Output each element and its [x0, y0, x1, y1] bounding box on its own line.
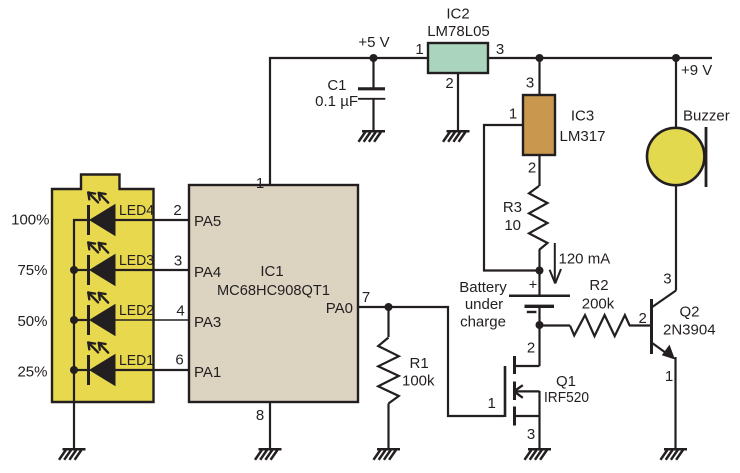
svg-text:PA5: PA5: [194, 213, 221, 230]
svg-text:PA3: PA3: [194, 314, 221, 331]
svg-text:LED1: LED1: [119, 352, 154, 369]
wire R1 bottom to ground: [387, 404, 389, 449]
wire bus stub LED3: [74, 269, 87, 271]
wire LED1 anode to PA1: [116, 369, 190, 371]
wire +9V rail (IC2 pin3 to right edge): [488, 57, 712, 59]
svg-text:0.1 µF: 0.1 µF: [315, 93, 358, 110]
wire battery + stub: [538, 271, 540, 296]
svg-text:3: 3: [174, 253, 182, 270]
wire C1 top: [372, 58, 374, 88]
svg-text:100%: 100%: [11, 212, 49, 229]
transistor Q1 IRF520 (MOSFET): [505, 356, 540, 426]
svg-text:3: 3: [496, 41, 504, 58]
svg-text:Q1: Q1: [556, 373, 576, 390]
svg-text:200k: 200k: [582, 296, 615, 313]
wire battery - to junction: [538, 306, 540, 326]
svg-text:2: 2: [445, 75, 453, 92]
ground Q1 source: [525, 449, 552, 460]
wire IC3 pin1 loop to battery + node: [484, 125, 537, 271]
svg-text:25%: 25%: [17, 364, 47, 381]
svg-text:2: 2: [527, 340, 535, 357]
svg-text:1: 1: [509, 106, 517, 123]
buzzer: [647, 127, 706, 187]
svg-text:10: 10: [504, 217, 521, 234]
junction battery + node: [536, 267, 544, 275]
svg-text:Q2: Q2: [680, 304, 700, 321]
wire LED2 anode to PA3: [116, 319, 190, 321]
LED bar-graph module body (battery-shaped yellow block): [52, 175, 154, 403]
svg-text:2N3904: 2N3904: [663, 322, 716, 339]
svg-text:1: 1: [256, 175, 264, 192]
capacitor C1: [358, 89, 385, 99]
svg-text:LM317: LM317: [560, 128, 606, 145]
junction +5V / C1: [370, 54, 378, 62]
svg-text:8: 8: [256, 407, 264, 424]
svg-text:2: 2: [639, 310, 647, 327]
label battery minus: [527, 311, 537, 313]
svg-text:4: 4: [176, 303, 184, 320]
svg-text:IRF520: IRF520: [544, 389, 589, 406]
wire R2 to Q2 base: [629, 324, 651, 326]
svg-text:3: 3: [663, 271, 671, 288]
svg-text:6: 6: [175, 352, 183, 369]
wire LED3 anode to PA4: [116, 269, 190, 271]
svg-text:+5 V: +5 V: [358, 34, 389, 51]
LED LED3: [88, 243, 115, 287]
svg-text:PA1: PA1: [194, 364, 221, 381]
svg-text:IC1: IC1: [260, 263, 283, 280]
svg-text:R3: R3: [503, 199, 522, 216]
transistor Q2 2N3904: [652, 291, 677, 360]
wire bus stub LED1: [74, 369, 87, 371]
ground Q2 emitter: [661, 449, 688, 460]
wire IC1 pin1 to +5V rail and rail to IC2 pin1: [270, 58, 428, 185]
LED LED1: [88, 343, 115, 387]
svg-text:Buzzer: Buzzer: [683, 108, 730, 125]
wire PA0 pin7 to Q1 gate: [358, 307, 504, 416]
svg-text:LED2: LED2: [119, 302, 154, 319]
IC IC1 MC68HC908QT1 microcontroller body: [189, 185, 358, 402]
svg-text:1: 1: [665, 368, 673, 385]
LED LED2: [88, 293, 115, 337]
battery under charge symbol: [509, 296, 570, 307]
resistor R3: [529, 186, 548, 250]
LED LED4: [88, 193, 115, 237]
wire junction to R2: [540, 324, 571, 326]
wire IC3 pin3: [538, 58, 540, 95]
ground R1: [374, 449, 401, 460]
ground IC1 pin8: [255, 449, 282, 460]
junction PA0 / R1: [385, 303, 393, 311]
label Battery under charge: [459, 279, 507, 331]
ground LED bus: [59, 449, 86, 460]
svg-text:under: under: [465, 296, 503, 313]
node +9V junction: [672, 54, 680, 62]
svg-text:3: 3: [526, 75, 534, 92]
wire bus stub LED2: [74, 319, 87, 321]
svg-text:IC3: IC3: [571, 108, 594, 125]
svg-text:LED4: LED4: [119, 202, 154, 219]
wire R1 top: [387, 307, 389, 337]
svg-text:LM78L05: LM78L05: [427, 23, 490, 40]
wire Q2 emitter to ground: [674, 357, 676, 448]
svg-text:PA0: PA0: [326, 300, 353, 317]
svg-text:50%: 50%: [17, 313, 47, 330]
svg-text:IC2: IC2: [446, 6, 469, 23]
junction rail / IC3 pin3: [536, 54, 544, 62]
wire IC2 pin2 to ground: [457, 73, 459, 130]
wire R3 to battery: [538, 250, 540, 271]
wire Q1 source to ground: [538, 391, 540, 448]
ground IC2 pin2: [443, 131, 470, 142]
wire Q1 drain to junction: [538, 325, 540, 366]
svg-text:1: 1: [488, 395, 496, 412]
svg-text:7: 7: [362, 289, 370, 306]
svg-text:+9 V: +9 V: [681, 62, 712, 79]
junction bus/LED3: [70, 266, 78, 274]
svg-text:120 mA: 120 mA: [559, 251, 611, 268]
junction bus/LED1: [70, 366, 78, 374]
wire LED cathode bus to ground: [74, 220, 87, 448]
svg-text:75%: 75%: [17, 262, 47, 279]
svg-text:2: 2: [528, 160, 536, 177]
svg-text:LED3: LED3: [119, 252, 154, 269]
svg-text:Battery: Battery: [459, 279, 507, 296]
svg-text:MC68HC908QT1: MC68HC908QT1: [217, 282, 330, 299]
svg-text:+: +: [529, 278, 537, 294]
svg-text:100k: 100k: [402, 373, 435, 390]
ground C1: [359, 131, 386, 142]
svg-text:R2: R2: [589, 277, 608, 294]
wire IC1 pin8 to ground: [269, 402, 271, 448]
IC3 regulator LM317 body: [523, 95, 555, 155]
wire LED4 anode to PA5: [116, 219, 190, 221]
svg-text:1: 1: [415, 41, 423, 58]
wire Q2 collector to buzzer: [675, 186, 677, 291]
svg-text:charge: charge: [460, 314, 506, 331]
IC2 regulator LM78L05 body: [428, 43, 488, 73]
wire C1 bottom to ground: [372, 100, 374, 131]
svg-text:R1: R1: [410, 355, 429, 372]
wire IC3 pin2 to R3: [538, 155, 540, 186]
svg-text:C1: C1: [327, 77, 346, 94]
svg-text:3: 3: [527, 426, 535, 443]
resistor R1: [378, 338, 399, 404]
svg-text:2: 2: [173, 202, 181, 219]
junction battery - / R2 / Q1 drain: [536, 321, 544, 329]
current arrow 120 mA: [550, 243, 561, 284]
wire +9V to buzzer: [675, 58, 677, 127]
resistor R2: [570, 315, 630, 336]
svg-text:PA4: PA4: [194, 264, 221, 281]
junction bus/LED2: [70, 316, 78, 324]
